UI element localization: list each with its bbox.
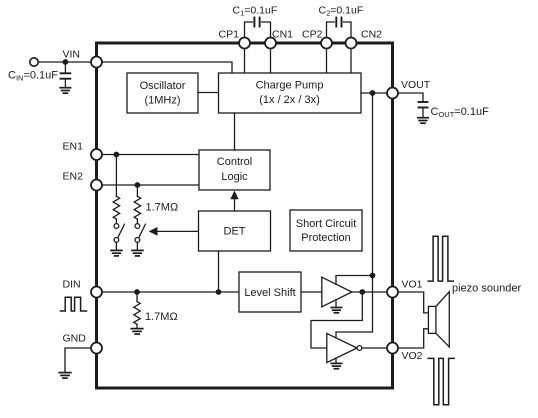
junction buffer output: [359, 289, 365, 295]
ground below S2: [132, 250, 143, 256]
svg-text:GND: GND: [63, 333, 87, 345]
resistor R1 1.7M pulldown EN1: [113, 155, 119, 224]
block short circuit protection: [290, 210, 362, 251]
block charge pump: [219, 73, 362, 113]
svg-text:VOUT: VOUT: [401, 79, 431, 91]
svg-text:Level Shift: Level Shift: [244, 287, 295, 299]
wire DET to DIN line: [218, 251, 220, 292]
switch S1: [114, 224, 124, 250]
block oscillator: [127, 73, 198, 113]
wire VOUT rail down: [372, 93, 374, 276]
waveform symbol VO2 output: [428, 358, 454, 404]
pin GND: [91, 343, 102, 354]
inverter output bubble: [357, 346, 362, 351]
svg-text:VIN: VIN: [63, 49, 81, 61]
capacitor COUT: [419, 102, 428, 118]
svg-text:DIN: DIN: [63, 279, 81, 291]
wire VIN external lead: [38, 61, 91, 63]
pin VOUT: [387, 88, 398, 99]
wire GND to ground: [65, 348, 91, 372]
junction DIN pulldown: [134, 289, 140, 295]
svg-text:Short Circuit: Short Circuit: [296, 218, 357, 230]
svg-text:(1MHz): (1MHz): [144, 94, 180, 106]
pin VIN: [91, 57, 102, 68]
block DET: [199, 211, 271, 251]
buffer amplifier A1: [322, 277, 352, 307]
svg-text:DET: DET: [224, 226, 246, 238]
inverter amplifier A2: [327, 333, 357, 362]
capacitor C1: [245, 18, 271, 38]
wire CN2 to charge pump: [350, 49, 352, 74]
arrowhead DET to switches: [149, 227, 158, 236]
svg-text:Protection: Protection: [301, 232, 351, 244]
junction buffer power: [370, 273, 376, 279]
IC body box: [97, 43, 393, 388]
wire buffer output to VO1: [352, 291, 387, 293]
wire VOUT external to COUT: [398, 93, 423, 102]
piezo sounder speaker: [428, 292, 449, 347]
junction DET/DIN: [216, 289, 222, 295]
svg-text:EN1: EN1: [63, 141, 84, 153]
svg-text:VO2: VO2: [402, 350, 423, 362]
wire charge pump to control logic: [234, 113, 236, 150]
wire oscillator to charge pump: [198, 92, 219, 94]
svg-text:piezo sounder: piezo sounder: [452, 283, 521, 295]
wire DET arrow to switches: [156, 230, 199, 232]
wire inverter output to VO2: [362, 347, 387, 349]
svg-text:Logic: Logic: [221, 171, 248, 183]
wire buffer output to inverter input: [311, 292, 362, 348]
pin VO1: [387, 287, 398, 298]
svg-text:CP2: CP2: [302, 29, 323, 41]
capacitor C2: [327, 18, 352, 38]
wire CP1 to charge pump: [244, 49, 246, 74]
svg-text:COUT=0.1uF: COUT=0.1uF: [431, 106, 490, 119]
wire VOUT rail to inverter power: [336, 276, 373, 338]
svg-text:Charge Pump: Charge Pump: [256, 80, 324, 92]
pin EN1: [91, 149, 102, 160]
block level shift: [239, 272, 301, 312]
svg-text:(1x / 2x / 3x): (1x / 2x / 3x): [259, 94, 320, 106]
svg-text:EN2: EN2: [63, 171, 84, 183]
ground below GND pin: [59, 373, 71, 379]
svg-text:VO1: VO1: [402, 279, 423, 291]
wire charge pump to VOUT pin: [361, 92, 387, 94]
ground below inverter A2: [331, 363, 341, 368]
svg-text:C1=0.1uF: C1=0.1uF: [233, 5, 278, 18]
pin VO2: [387, 343, 398, 354]
svg-text:CN2: CN2: [361, 29, 382, 41]
wire VOUT to buffer power: [336, 276, 373, 285]
junction VIN/CIN node: [63, 59, 69, 65]
wire EN1 to control logic: [102, 154, 199, 156]
arrowhead DET to control logic: [230, 191, 238, 200]
ground below R3: [131, 329, 143, 335]
svg-text:CIN=0.1uF: CIN=0.1uF: [8, 69, 58, 82]
terminal VIN external: [30, 58, 38, 66]
waveform symbol VO1 output: [428, 236, 453, 281]
wire DIN to level shift: [102, 291, 239, 293]
block control logic: [199, 150, 270, 190]
resistor R3 1.7M pulldown DIN: [134, 292, 140, 328]
ground below COUT: [418, 118, 428, 124]
pin EN2: [91, 180, 102, 191]
capacitor CIN: [61, 62, 71, 88]
ground below CIN: [60, 88, 70, 94]
pin CN2: [346, 38, 357, 49]
wire inverter ground stub: [335, 358, 337, 363]
wire VIN to charge pump: [102, 62, 232, 73]
junction VOUT node: [370, 90, 376, 96]
pin CN1: [265, 38, 276, 49]
resistor R2 1.7M pulldown EN2: [134, 185, 140, 223]
ground below buffer A1: [331, 308, 341, 313]
svg-text:CN1: CN1: [272, 29, 293, 41]
svg-text:1.7MΩ: 1.7MΩ: [146, 202, 179, 214]
pin CP2: [321, 38, 332, 49]
wire level shift to buffer: [301, 291, 322, 293]
wire buffer ground stub: [335, 300, 337, 307]
svg-text:C2=0.1uF: C2=0.1uF: [319, 5, 364, 18]
wire VO1 to piezo: [398, 292, 428, 313]
ground below S1: [111, 250, 122, 256]
switch S2: [135, 224, 145, 250]
svg-text:1.7MΩ: 1.7MΩ: [145, 311, 178, 323]
pin CP1: [239, 38, 250, 49]
wire CN1 to charge pump: [270, 49, 272, 74]
wire CP2 to charge pump: [326, 49, 328, 74]
svg-text:CP1: CP1: [219, 29, 240, 41]
pin DIN: [91, 287, 102, 298]
svg-text:Control: Control: [217, 156, 252, 168]
wire DET to control logic arrow: [234, 196, 236, 211]
wire EN2 to control logic: [102, 184, 199, 186]
junction EN2 pulldown: [135, 182, 141, 188]
waveform symbol DIN input: [61, 297, 87, 311]
wire VO2 to piezo: [398, 329, 428, 348]
junction EN1 pulldown: [114, 152, 120, 158]
svg-text:Oscillator: Oscillator: [140, 80, 186, 92]
